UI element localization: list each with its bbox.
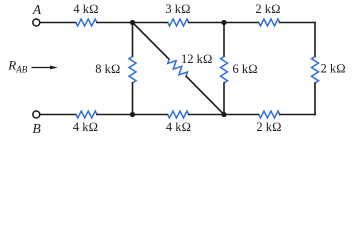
resistor R10 2 kOhm (bottom right) <box>259 111 280 118</box>
wire node E to R9 <box>133 114 168 116</box>
svg-text:2 kΩ: 2 kΩ <box>255 2 280 16</box>
wire middle column top lead <box>223 23 225 57</box>
resistor R6 6 kOhm (middle vertical) <box>221 57 228 83</box>
wire diagonal upper lead <box>133 23 170 60</box>
resistor R8 4 kOhm (bottom left) <box>76 111 97 118</box>
svg-text:2 kΩ: 2 kΩ <box>256 120 281 134</box>
resistor R7 12 kOhm (diagonal) <box>166 56 189 79</box>
resistor R1 4 kOhm (top left) <box>76 19 97 26</box>
wire R8 to node E <box>97 114 133 116</box>
svg-text:4 kΩ: 4 kΩ <box>73 2 98 16</box>
terminal A open circle <box>33 19 40 26</box>
svg-text:3 kΩ: 3 kΩ <box>165 2 190 16</box>
svg-text:B: B <box>32 121 40 136</box>
svg-text:6 kΩ: 6 kΩ <box>233 62 258 76</box>
junction node E <box>130 112 135 117</box>
wire B to R8 <box>40 114 76 116</box>
wire R1 to node C <box>97 22 133 24</box>
wire middle column bottom lead <box>223 83 225 115</box>
wire left column bottom lead <box>132 83 134 115</box>
wire A to R1 <box>40 22 76 24</box>
resistor R3 2 kOhm (top right) <box>259 19 280 26</box>
svg-text:4 kΩ: 4 kΩ <box>73 120 98 134</box>
wire node F to R10 <box>224 114 259 116</box>
junction node F <box>221 112 226 117</box>
wire R9 to node F <box>189 114 224 116</box>
wire right side bottom lead <box>314 83 316 115</box>
svg-text:4 kΩ: 4 kΩ <box>166 120 191 134</box>
svg-text:A: A <box>32 2 42 17</box>
resistor R4 2 kOhm (right vertical) <box>312 57 319 83</box>
arrow for R_AB <box>32 66 58 70</box>
junction node C <box>130 20 135 25</box>
wire diagonal lower lead <box>186 76 224 114</box>
wire left column top lead <box>132 23 134 57</box>
svg-text:2 kΩ: 2 kΩ <box>321 62 346 76</box>
terminal B open circle <box>33 111 40 118</box>
svg-text:12 kΩ: 12 kΩ <box>181 52 212 66</box>
wire node C to R2 <box>133 22 168 24</box>
wire R10 to bottom right corner <box>280 114 315 116</box>
junction node D <box>221 20 226 25</box>
svg-text:8 kΩ: 8 kΩ <box>95 62 120 76</box>
resistor R9 4 kOhm (bottom middle) <box>168 111 189 118</box>
wire node D to R3 <box>224 22 259 24</box>
wire R2 to node D <box>189 22 224 24</box>
wire right side top lead <box>314 23 316 57</box>
resistor R2 3 kOhm (top middle) <box>168 19 189 26</box>
resistor R5 8 kOhm (left vertical) <box>129 57 136 83</box>
wire R3 to top right corner <box>280 22 315 24</box>
